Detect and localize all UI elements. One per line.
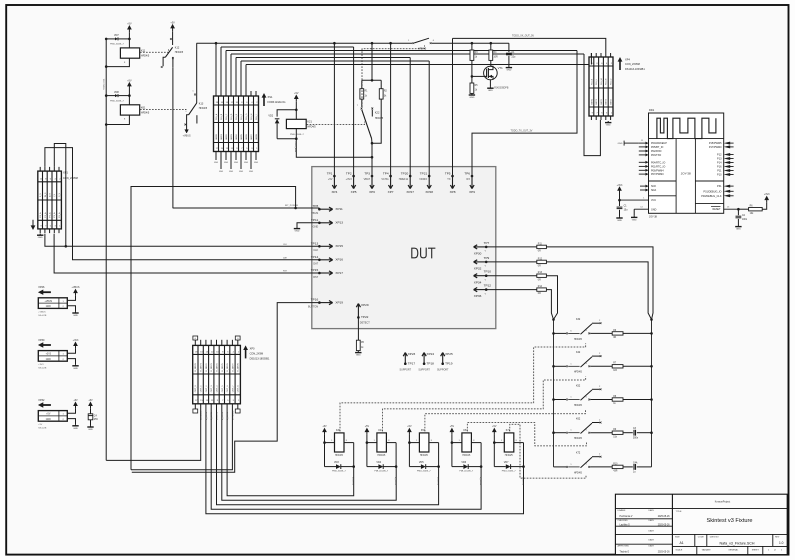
svg-text:GND: GND	[736, 229, 741, 231]
linkage dashed K22 to K14	[362, 45, 425, 107]
svg-text:0R: 0R	[538, 293, 541, 295]
svg-text:GND: GND	[73, 368, 78, 370]
linkage dashed K31 to K32	[340, 343, 586, 431]
svg-text:GND: GND	[73, 315, 78, 317]
svg-text:RESET: RESET	[713, 208, 722, 211]
svg-text:K_DRV4: K_DRV4	[216, 363, 218, 372]
svg-text:Nafa_v3_Fixture.SCH: Nafa_v3_Fixture.SCH	[720, 541, 755, 545]
wire XP0 to relay coil K71 drive	[206, 404, 524, 514]
resistor R2	[379, 89, 387, 99]
svg-text:SIG_O: SIG_O	[611, 78, 613, 85]
relay contact K62	[552, 418, 653, 441]
wire TP2 feed	[353, 47, 355, 176]
svg-text:K_DRV3: K_DRV3	[211, 363, 213, 372]
relay contact K12	[161, 31, 184, 68]
diode VD2	[268, 110, 296, 139]
svg-text:GND0: GND0	[216, 133, 218, 140]
svg-text:P15/PWM5: P15/PWM5	[709, 142, 722, 145]
svg-text:SDA: SDA	[651, 189, 656, 192]
svg-text:GND: GND	[224, 162, 229, 164]
test point TP8 / XP11 (VBUS) at DUT left	[311, 204, 343, 215]
svg-text:XP9: XP9	[469, 190, 475, 194]
svg-text:XP8: XP8	[450, 190, 456, 194]
wire top rail +5V (K13 to contact K14, TP4 tap)	[197, 42, 413, 45]
wire XP0 to relay coil K31 drive	[227, 404, 354, 496]
wire TP5 feed	[452, 38, 454, 176]
svg-text:A1: A1	[680, 541, 684, 545]
ground at XP26	[72, 311, 78, 317]
connector XP26 (+VBUS input)	[38, 286, 76, 317]
svg-text:OUT_0: OUT_0	[195, 385, 197, 393]
svg-text:TP11: TP11	[311, 218, 318, 222]
net label DAT	[283, 256, 288, 259]
svg-text:I_S: I_S	[54, 193, 56, 197]
svg-text:VCC: VCC	[651, 199, 656, 202]
diode VD3 (coil snubber)	[325, 443, 354, 473]
XP1 polarity arrow	[31, 220, 36, 230]
svg-text:K_DRV0: K_DRV0	[195, 363, 197, 372]
svg-text:GENERAL: GENERAL	[728, 549, 739, 552]
relay contact K72	[554, 452, 613, 475]
svg-text:GND: GND	[469, 97, 474, 99]
svg-text:SUPPORT: SUPPORT	[437, 368, 449, 371]
svg-text:DS1013-10SSIB1: DS1013-10SSIB1	[625, 68, 645, 71]
relay contact K52	[552, 384, 653, 407]
svg-text:XP32: XP32	[38, 399, 45, 402]
svg-text:HFD4/5: HFD4/5	[574, 438, 583, 440]
svg-text:K72: K72	[576, 452, 581, 455]
capacitor C2 at reset	[736, 209, 748, 225]
svg-text:TP12: TP12	[484, 284, 492, 288]
svg-text:P06/PWM4: P06/PWM4	[651, 169, 664, 172]
diode VD7 (coil snubber)	[494, 443, 523, 473]
connector XP0 indicator arrow	[243, 345, 270, 360]
wire contact K13 to top rail	[196, 43, 198, 103]
pin P15/PWM5 of DD1	[709, 142, 734, 146]
svg-text:SIG_A: SIG_A	[215, 113, 218, 120]
svg-text:GND: GND	[651, 208, 657, 211]
test point TP18 / XP24 (SUPPORT)	[418, 352, 434, 371]
diode VD7	[106, 34, 129, 45]
svg-text:CON_2X9M: CON_2X9M	[250, 352, 263, 355]
resistor R10	[612, 463, 623, 472]
svg-text:GND: GND	[632, 219, 637, 221]
svg-text:+3V3: +3V3	[346, 178, 353, 181]
XP0 corner GND pads top	[193, 336, 240, 340]
pin P04/RTC_IO of DD1	[639, 161, 666, 165]
diode VD5 (coil snubber)	[409, 443, 438, 473]
svg-text:+5V: +5V	[46, 414, 51, 416]
svg-text:K22: K22	[375, 112, 380, 115]
svg-text:B_SENS2: B_SENS2	[201, 410, 203, 420]
left vertical bus wire TODO_5V	[104, 39, 107, 461]
svg-text:+3V3: +3V3	[38, 364, 44, 366]
svg-text:GND: GND	[618, 143, 623, 145]
svg-text:R14: R14	[538, 286, 543, 288]
wire rail TODO_XX_OUT_5V	[453, 35, 606, 53]
capacitor C1A at VCC	[617, 205, 629, 216]
svg-text:XP19: XP19	[335, 300, 343, 304]
svg-text:VBUS: VBUS	[311, 212, 318, 215]
svg-text:R10: R10	[613, 463, 618, 465]
svg-text:+5V: +5V	[450, 425, 455, 428]
relay coil K21	[286, 119, 316, 138]
svg-text:GND: GND	[617, 220, 622, 222]
node left measurement bus	[552, 318, 555, 467]
svg-text:XP23: XP23	[408, 352, 416, 356]
relay contact K13	[184, 90, 207, 126]
connector XS1 CON_2X9	[214, 96, 259, 152]
svg-text:+3V3: +3V3	[617, 184, 623, 187]
svg-text:SCALE: SCALE	[676, 549, 683, 552]
svg-text:+5V: +5V	[365, 425, 370, 428]
test point TP22 / XP29 (DETECT) at DUT bottom	[356, 303, 370, 325]
svg-text:PMLL4148L-7: PMLL4148L-7	[374, 471, 389, 473]
svg-text:+3V3: +3V3	[764, 193, 770, 196]
svg-text:SHEET: SHEET	[752, 550, 760, 552]
svg-text:K42: K42	[576, 351, 581, 354]
linkage dashed K41 to K42	[382, 376, 585, 431]
svg-text:FORK ANALOG: FORK ANALOG	[268, 101, 286, 104]
wire R1/R2 top rail	[362, 43, 381, 88]
svg-text:OUT_3: OUT_3	[211, 385, 213, 393]
svg-text:TP2: TP2	[346, 171, 352, 175]
pin P17/PWM0 of DD1	[709, 145, 734, 149]
svg-text:SIG_H: SIG_H	[251, 113, 253, 120]
svg-text:P16: P16	[717, 166, 722, 169]
XS1 bottom pin stubs to GND	[214, 152, 259, 174]
svg-text:XP30: XP30	[38, 339, 45, 342]
wire XP4 pin feeds from bundle	[590, 53, 592, 65]
svg-text:GND: GND	[38, 237, 43, 239]
wire R3 to gate	[471, 60, 487, 83]
svg-text:SIG_K: SIG_K	[591, 78, 593, 85]
svg-text:HFD4/5: HFD4/5	[574, 405, 583, 407]
svg-text:OUT_2: OUT_2	[206, 385, 208, 393]
wire R8 to right bus	[623, 399, 652, 401]
wire +5V to coil K11	[128, 32, 131, 48]
svg-text:RX: RX	[467, 178, 471, 181]
svg-text:K52: K52	[576, 384, 581, 387]
test point TP9 / XP32 at DUT right	[474, 256, 490, 271]
svg-text:B_OUT5: B_OUT5	[206, 411, 208, 420]
svg-text:PMLL4148L-7: PMLL4148L-7	[110, 100, 125, 102]
IC module DD1 JOY-38	[649, 108, 724, 219]
svg-text:GND3: GND3	[231, 133, 233, 140]
power +5V at relay K21 coil	[294, 92, 299, 102]
wire TP20 feed	[409, 58, 411, 177]
wire XP1 top route to CLK net	[54, 144, 67, 248]
connector XP4 indicator arrow	[618, 57, 646, 71]
svg-text:K61: K61	[141, 106, 146, 109]
transistor VT1 RJK0305DPB	[484, 60, 509, 89]
svg-text:TODO_XX_OUT_5V: TODO_XX_OUT_5V	[512, 35, 534, 38]
svg-text:OUT_4: OUT_4	[216, 385, 218, 393]
svg-text:HFD4/5: HFD4/5	[420, 455, 429, 457]
svg-text:GND: GND	[234, 162, 239, 164]
svg-text:Lacithia G: Lacithia G	[620, 523, 631, 526]
svg-text:TP22: TP22	[361, 315, 369, 319]
svg-text:HREF11: HREF11	[399, 178, 409, 181]
pin P05/BT_IO of DD1	[639, 145, 664, 149]
svg-text:XP25: XP25	[445, 352, 453, 356]
svg-text:P00/DEBUG_CLK: P00/DEBUG_CLK	[701, 195, 722, 198]
pin P10 of DD1	[717, 173, 734, 177]
svg-text:CON_2X05M: CON_2X05M	[625, 63, 640, 66]
svg-text:PMLL4148L-7: PMLL4148L-7	[110, 44, 125, 46]
svg-text:TP9: TP9	[484, 256, 490, 260]
power +3V3 at XP30	[73, 339, 79, 349]
svg-text:VCHG: VCHG	[381, 178, 388, 181]
svg-text:B_OUT1: B_OUT1	[352, 477, 354, 486]
pin SDA of DD1	[640, 189, 656, 193]
svg-text:DATE: DATE	[649, 509, 655, 512]
resistor R5A (gate pulldown)	[470, 83, 478, 93]
wire TP16 (BUTTON) route	[132, 303, 320, 473]
svg-text:2025-05-26: 2025-05-26	[658, 516, 670, 518]
svg-text:+5V: +5V	[88, 399, 93, 402]
svg-text:25V: 25V	[94, 419, 99, 421]
pin RESET of DD1	[711, 206, 740, 211]
svg-text:2025-05-26: 2025-05-26	[658, 524, 670, 526]
wire +5V to coil K61	[105, 89, 131, 105]
svg-text:GND: GND	[488, 90, 493, 92]
svg-text:XP4: XP4	[625, 57, 630, 61]
svg-text:XP27: XP27	[406, 190, 414, 194]
svg-text:P01/RTC_IO: P01/RTC_IO	[651, 166, 665, 169]
linkage dashed K51 to K52	[425, 410, 586, 431]
svg-text:HFD4/5: HFD4/5	[141, 54, 150, 57]
linkage dashed K61A to K62	[467, 423, 586, 446]
svg-text:GND7: GND7	[251, 133, 253, 140]
svg-text:HFD4/5: HFD4/5	[175, 51, 184, 54]
svg-text:XP17: XP17	[335, 271, 343, 275]
svg-text:HFD4/5: HFD4/5	[199, 107, 208, 110]
ground at C2	[735, 225, 741, 231]
svg-text:+5V: +5V	[38, 424, 42, 426]
svg-text:P3_A: P3_A	[53, 212, 56, 218]
svg-text:10R: 10R	[494, 57, 499, 59]
capacitor C1 (input)	[506, 43, 516, 66]
pin P03/TXD of DD1	[639, 153, 662, 157]
svg-text:OUT_5: OUT_5	[222, 385, 224, 393]
wire rail to XP4 pin 5 bottom	[584, 54, 600, 156]
svg-text:TP13: TP13	[311, 241, 319, 245]
svg-text:O_S: O_S	[59, 192, 61, 197]
svg-text:GND: GND	[295, 231, 300, 233]
wire rail TODO_TX_OUT_3V to TP6	[472, 51, 577, 177]
svg-text:TITLE: TITLE	[676, 511, 682, 513]
test point TP7 / XP30 at DUT right	[474, 241, 490, 256]
svg-text:VARIANT: VARIANT	[702, 549, 712, 552]
svg-text:VD7: VD7	[114, 34, 119, 37]
svg-text:B_OUT3: B_OUT3	[436, 477, 438, 486]
svg-text:XP11: XP11	[335, 207, 343, 211]
svg-text:XP28: XP28	[425, 190, 433, 194]
svg-text:GND: GND	[313, 226, 319, 229]
svg-text:XP24: XP24	[427, 352, 435, 356]
wire coil K61 return	[105, 115, 130, 126]
svg-text:0R: 0R	[538, 251, 541, 253]
svg-text:GND5: GND5	[241, 133, 243, 140]
svg-text:VBAT: VBAT	[364, 178, 371, 181]
wire +5V to coil K21	[295, 102, 298, 120]
wire XP0 pin to left 5V rail	[106, 404, 202, 461]
svg-text:TP7: TP7	[484, 241, 490, 245]
svg-text:+5V: +5V	[492, 425, 497, 428]
power +5V at contact K12	[170, 21, 175, 31]
svg-text:GND: GND	[506, 70, 511, 72]
test point TP13 / XP15 (CLK) at DUT left	[311, 241, 343, 252]
wire R6 to right bus	[623, 332, 652, 334]
svg-text:XP6: XP6	[369, 190, 375, 194]
svg-text:P10: P10	[717, 174, 722, 177]
svg-text:RST: RST	[313, 276, 318, 279]
svg-text:K12: K12	[175, 47, 180, 50]
svg-text:+5V: +5V	[407, 425, 412, 428]
svg-text:VD7: VD7	[504, 461, 509, 464]
svg-text:CODE: CODE	[698, 536, 705, 538]
resistor R5	[356, 340, 364, 350]
relay coil K61	[451, 429, 482, 457]
ground at C1A	[616, 216, 622, 222]
relay contact K14 (top right)	[408, 38, 435, 50]
relay coil K51	[408, 429, 439, 457]
svg-text:HFD4/5: HFD4/5	[574, 372, 583, 374]
ground at XP30	[72, 364, 78, 370]
svg-text:XP26: XP26	[38, 286, 45, 289]
svg-text:K_DRV5: K_DRV5	[222, 363, 224, 372]
relay contact K32	[552, 318, 653, 341]
svg-text:HFD4/5: HFD4/5	[377, 455, 386, 457]
svg-text:SKu12B: SKu12B	[38, 315, 47, 317]
svg-text:DATE: DATE	[649, 529, 655, 532]
wire coil K51 switched side	[436, 443, 440, 486]
pin P16 of DD1	[717, 165, 734, 169]
svg-text:P14: P14	[717, 162, 722, 165]
svg-text:P12: P12	[717, 154, 722, 157]
svg-text:GND: GND	[46, 306, 51, 308]
svg-text:TP4: TP4	[383, 171, 389, 175]
pin P02/RXD of DD1	[639, 150, 662, 154]
linkage dashed K21 to K22	[307, 122, 365, 125]
svg-text:NET1: NET1	[596, 98, 598, 104]
svg-text:+5V: +5V	[73, 399, 78, 402]
svg-text:NET3: NET3	[606, 98, 608, 104]
wire XP0 to relay coil K61 drive	[211, 404, 481, 509]
wire XS1 pin risers and bundle	[216, 43, 591, 96]
net label CLK	[283, 244, 288, 246]
connector XP0 CON_2X9M	[193, 340, 241, 404]
power +VBUS (down arrow) at contact K13	[183, 127, 191, 138]
wire TP9 through R12 to right bus	[486, 258, 651, 319]
svg-text:PMLL4148L-7: PMLL4148L-7	[459, 471, 474, 473]
pin SCK of DD1	[640, 185, 656, 189]
wire coil K31 switched side	[352, 443, 356, 486]
svg-text:B_OUT1: B_OUT1	[227, 411, 229, 420]
svg-text:INT_POWER: INT_POWER	[285, 205, 298, 207]
relay coil K71	[493, 429, 524, 457]
pin P13 of DD1	[717, 157, 734, 161]
svg-text:SIG_C: SIG_C	[226, 113, 228, 120]
svg-text:B_OUT2: B_OUT2	[222, 411, 224, 420]
svg-text:GND: GND	[254, 162, 259, 164]
ground at R5	[355, 351, 361, 357]
test point TP1 / XP4 (+5V) at DUT top	[327, 171, 338, 194]
svg-text:K_DRV2: K_DRV2	[206, 363, 208, 372]
test point TP12 / XP36 at DUT right	[474, 284, 492, 299]
svg-text:BUTTON: BUTTON	[308, 305, 318, 308]
svg-text:R12: R12	[538, 258, 543, 260]
svg-text:TP17: TP17	[408, 362, 416, 366]
test point TP4 / XP7 (VCHG) at DUT top	[381, 171, 393, 194]
power +5V at XP32	[73, 399, 78, 409]
svg-text:P4_A: P4_A	[58, 212, 61, 218]
ground at XP32	[72, 424, 78, 430]
svg-text:JOY-38: JOY-38	[681, 172, 691, 176]
svg-text:TODO_ANA: TODO_ANA	[294, 141, 297, 153]
svg-text:OUT_8: OUT_8	[238, 385, 240, 393]
svg-text:K62: K62	[576, 418, 581, 421]
svg-text:GND: GND	[219, 171, 224, 173]
svg-text:SIG_L: SIG_L	[596, 78, 598, 85]
svg-text:RJK0305DPB: RJK0305DPB	[494, 87, 509, 89]
resistor R6	[612, 330, 623, 339]
ground at XP1 pin 1	[37, 234, 43, 240]
svg-text:TP21: TP21	[420, 171, 428, 175]
svg-text:K32: K32	[576, 318, 581, 321]
svg-text:CLK: CLK	[313, 249, 318, 252]
resistor R9	[612, 429, 623, 438]
svg-text:P2_A: P2_A	[49, 212, 52, 218]
svg-text:GND2: GND2	[226, 133, 228, 140]
svg-text:TP20: TP20	[401, 171, 409, 175]
svg-text:SIG_E: SIG_E	[236, 113, 238, 120]
svg-text:43R: 43R	[613, 471, 618, 473]
connector XP30 (+3V3 input)	[38, 339, 76, 370]
svg-text:DAT: DAT	[313, 263, 318, 266]
svg-text:HFD4/5: HFD4/5	[141, 111, 150, 114]
test point TP5 / XP8 (TX) at DUT top	[445, 171, 456, 194]
svg-text:DATE: DATE	[649, 545, 655, 548]
svg-text:1.0: 1.0	[779, 541, 784, 545]
pin P07/PWM0 of DD1	[639, 173, 664, 177]
relay coil K31	[323, 429, 354, 457]
wire coil K71 switched side	[521, 443, 525, 486]
XP0 corner GND stubs bottom	[193, 404, 240, 413]
wire TP22 to R5	[357, 317, 359, 340]
svg-text:REV: REV	[775, 536, 780, 538]
svg-text:K21: K21	[307, 120, 312, 123]
svg-text:SIG_B: SIG_B	[221, 113, 223, 120]
svg-text:VT1: VT1	[498, 66, 504, 70]
relay coil K41	[366, 429, 397, 457]
svg-text:+VBUS: +VBUS	[72, 286, 80, 289]
relay contact K22	[357, 99, 384, 143]
svg-text:TP5: TP5	[445, 171, 451, 175]
svg-text:TP10: TP10	[484, 270, 492, 274]
resistor R7	[612, 363, 623, 372]
svg-text:P04/RTC_IO: P04/RTC_IO	[651, 161, 665, 164]
wire contact K12 to VBUS net (down to TP8 line)	[172, 67, 174, 208]
svg-text:KessonProject: KessonProject	[715, 500, 731, 503]
wire XP1 pin to TP13 (CLK)	[45, 234, 320, 247]
power +5V at C4	[88, 399, 93, 409]
svg-text:DATE: DATE	[649, 538, 655, 541]
wire XP0 to relay coil K41 drive	[222, 404, 396, 500]
svg-text:0R: 0R	[613, 337, 616, 339]
svg-text:P07/PWM0: P07/PWM0	[651, 173, 664, 176]
